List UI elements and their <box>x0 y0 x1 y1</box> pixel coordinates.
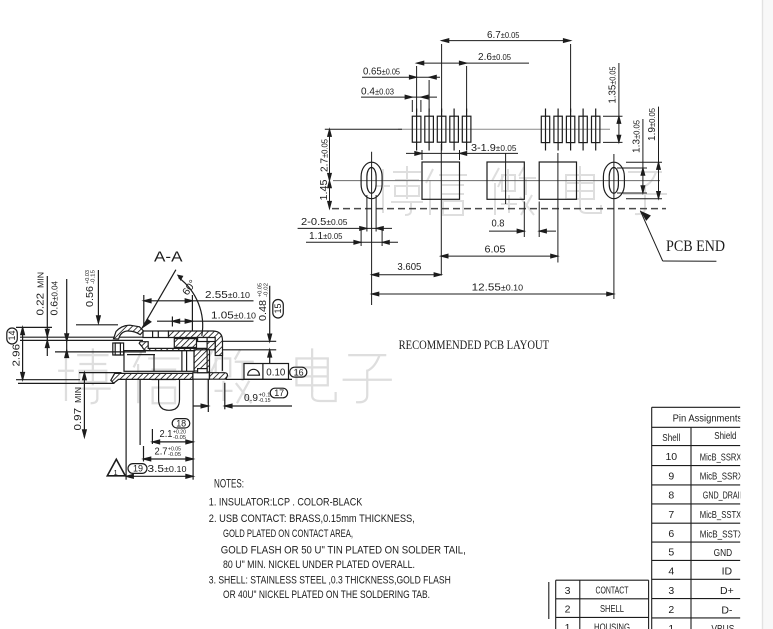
dim 0.56 +0.03/-0.15 <box>76 270 118 325</box>
svg-text:18: 18 <box>176 418 186 428</box>
dim 0.9 +0.1/-0.15 <box>193 392 292 408</box>
svg-text:SHELL: SHELL <box>600 603 624 615</box>
svg-text:1: 1 <box>114 468 118 477</box>
dimension 1.3±0.05 (oval slot) <box>617 119 647 193</box>
svg-text:MIN: MIN <box>74 387 83 403</box>
svg-text:D-: D- <box>721 604 733 616</box>
svg-text:Shield: Shield <box>714 430 736 442</box>
svg-text:14: 14 <box>7 331 17 341</box>
svg-text:-0.05: -0.05 <box>168 452 181 458</box>
rear shell wall strip <box>207 350 209 376</box>
svg-text:1.1±0.05: 1.1±0.05 <box>309 230 343 242</box>
svg-text:16: 16 <box>294 367 304 377</box>
dimension 3-1.9±0.05 (squares) <box>406 142 518 160</box>
square pad 1 <box>422 162 460 199</box>
dim 2.96 left <box>11 327 81 379</box>
contact lower line left <box>55 351 146 353</box>
shell top wall thin lines (left, to mating end) <box>20 336 143 338</box>
oval 17 <box>270 388 287 398</box>
svg-text:9: 9 <box>668 471 674 483</box>
svg-text:19: 19 <box>133 464 143 474</box>
white notch in band <box>198 338 208 342</box>
svg-text:MIN: MIN <box>37 272 46 288</box>
dimension 0.65±0.05 <box>362 65 440 112</box>
dim 1.05±0.10 <box>157 310 257 327</box>
svg-text:2.7±0.05: 2.7±0.05 <box>319 138 331 172</box>
mid cavity outline <box>124 351 194 372</box>
svg-text:0.4±0.03: 0.4±0.03 <box>361 85 395 97</box>
shell top band (hatched) with right wall <box>169 331 223 356</box>
svg-text:0.65±0.05: 0.65±0.05 <box>363 65 400 77</box>
svg-text:6.05: 6.05 <box>485 244 506 256</box>
svg-text:GOLD PLATED ON CONTACT AREA,: GOLD PLATED ON CONTACT AREA, <box>223 528 353 540</box>
dimension 1.45 (left vertical) <box>318 179 331 208</box>
dimension 2-0.5±0.05 <box>298 195 392 232</box>
parts table (bottom left) <box>549 580 649 629</box>
front insulator small box <box>113 343 124 355</box>
svg-text:ID: ID <box>722 566 733 578</box>
svg-text:0.8: 0.8 <box>492 218 505 230</box>
oval pad left <box>361 162 382 199</box>
svg-text:12.55±0.10: 12.55±0.10 <box>472 281 524 293</box>
svg-text:1.9±0.05: 1.9±0.05 <box>646 107 658 141</box>
svg-text:D+: D+ <box>720 585 734 597</box>
through-slot below (rounded bottom) <box>159 379 180 410</box>
svg-text:A-A: A-A <box>154 250 183 266</box>
dim 2.55±0.10 <box>144 289 254 332</box>
svg-text:2.1: 2.1 <box>160 428 173 440</box>
revision triangle <box>107 459 125 477</box>
svg-text:1.3±0.05: 1.3±0.05 <box>631 119 643 153</box>
svg-text:Shell: Shell <box>662 432 680 444</box>
dimension 12.55±0.10 <box>372 281 614 296</box>
svg-text:-0.05: -0.05 <box>173 435 186 441</box>
dim 2.1 +0.20/-0.05 <box>152 428 193 444</box>
svg-text:3.605: 3.605 <box>397 261 421 273</box>
shell bottom line left <box>18 382 115 384</box>
contact (hatched thin strip with bend) <box>139 342 206 351</box>
svg-text:OR 40U" NICKEL PLATED ON THE S: OR 40U" NICKEL PLATED ON THE SOLDERING T… <box>223 589 430 601</box>
dimension 6.7±0.05 <box>442 29 571 112</box>
dim 0.48 +0.05/-0.02 with leader to frame <box>223 283 276 364</box>
svg-text:1.45: 1.45 <box>318 179 330 200</box>
shell latch hook (hatched) <box>114 325 144 339</box>
dimension 2.6±0.05 <box>417 51 529 112</box>
svg-text:4: 4 <box>668 566 674 578</box>
dimension 1.35±0.05 (pad length) <box>603 63 623 142</box>
svg-text:1.35±0.05: 1.35±0.05 <box>607 66 619 103</box>
svg-text:7: 7 <box>668 509 674 521</box>
svg-text:3. SHELL: STAINLESS STEEL ,0.3: 3. SHELL: STAINLESS STEEL ,0.3 THICKNESS… <box>209 574 451 586</box>
svg-text:3: 3 <box>565 585 571 597</box>
svg-text:2: 2 <box>668 604 674 616</box>
rear insulator block (hatched) <box>194 350 207 371</box>
shell top band white cells <box>143 331 169 338</box>
oval centerlines <box>371 152 373 305</box>
watermark row 1 <box>376 166 423 215</box>
dim 3.5±0.10 with oval 19 <box>126 463 193 478</box>
svg-text:17: 17 <box>274 388 284 398</box>
60 degree angle: slant line, arc, label <box>142 270 203 336</box>
svg-text:10: 10 <box>665 451 677 463</box>
svg-text:Pin Assignments: Pin Assignments <box>673 413 743 425</box>
PCB edge dashed line <box>332 208 666 210</box>
svg-text:2-0.5±0.05: 2-0.5±0.05 <box>301 216 348 228</box>
foot surface line to right <box>226 378 292 380</box>
svg-text:2. USB CONTACT: BRASS,0.15mm T: 2. USB CONTACT: BRASS,0.15mm THICKNESS, <box>209 513 415 525</box>
pin assignment table (right, clipped at page edge) <box>652 407 746 629</box>
svg-text:2.96: 2.96 <box>11 344 23 367</box>
dim 0.6±0.04 <box>49 279 69 358</box>
svg-text:15: 15 <box>273 304 283 314</box>
dimension 1.1±0.05 <box>306 228 398 246</box>
PCB END leader <box>640 211 725 262</box>
dim 2.7 +0.05/-0.05 <box>144 445 194 461</box>
svg-text:MicB_SSRX+: MicB_SSRX+ <box>700 451 746 463</box>
svg-text:MicB_SSTX+: MicB_SSTX+ <box>700 509 746 521</box>
svg-text:5: 5 <box>668 547 674 559</box>
dimension 0.8 (square gap) <box>489 202 556 238</box>
svg-text:MicB_SSTX-: MicB_SSTX- <box>700 528 746 540</box>
svg-text:-0.02: -0.02 <box>263 283 269 297</box>
dimension 1.9±0.05 (oval) <box>626 107 662 199</box>
svg-text:0.97: 0.97 <box>72 408 84 431</box>
svg-text:GND: GND <box>714 547 733 559</box>
svg-text:6.7±0.05: 6.7±0.05 <box>487 29 520 41</box>
svg-text:GOLD FLASH OR 50 U" TIN PLATED: GOLD FLASH OR 50 U" TIN PLATED ON SOLDER… <box>221 545 466 557</box>
svg-text:0.56: 0.56 <box>84 286 96 307</box>
svg-text:1: 1 <box>668 623 674 629</box>
oval 15 <box>273 300 284 319</box>
svg-text:0.22: 0.22 <box>35 293 47 316</box>
svg-text:NOTES:: NOTES: <box>214 479 244 491</box>
legs / extension lines below body <box>125 379 127 479</box>
centerline pad row <box>398 128 610 130</box>
svg-text:2.6±0.05: 2.6±0.05 <box>478 51 512 63</box>
dimension 3.605 <box>372 261 442 277</box>
svg-text:2: 2 <box>565 604 571 616</box>
white box between plate and foot <box>193 373 210 380</box>
svg-text:2.55±0.10: 2.55±0.10 <box>205 289 251 301</box>
svg-text:3: 3 <box>668 585 674 597</box>
svg-text:HOUSING: HOUSING <box>594 622 630 629</box>
flatness feature control frame <box>244 364 289 380</box>
svg-text:0.10: 0.10 <box>266 366 285 378</box>
svg-text:PCB END: PCB END <box>666 238 725 255</box>
dimension 6.05 <box>441 244 558 258</box>
pad group right (5 solder pads) <box>541 109 600 151</box>
svg-text:MicB_SSRX-: MicB_SSRX- <box>700 471 746 483</box>
svg-text:CONTACT: CONTACT <box>596 585 629 597</box>
svg-text:-0.15: -0.15 <box>91 270 97 284</box>
svg-text:8: 8 <box>668 490 674 502</box>
bottom plate (hatched) <box>111 373 193 383</box>
svg-text:1. INSULATOR:LCP . COLOR-BLACK: 1. INSULATOR:LCP . COLOR-BLACK <box>209 496 363 508</box>
svg-text:80 U" MIN. NICKEL UNDER PLATED: 80 U" MIN. NICKEL UNDER PLATED OVERALL. <box>223 559 415 571</box>
svg-text:3-1.9±0.05: 3-1.9±0.05 <box>471 142 517 154</box>
svg-text:VBUS: VBUS <box>711 623 734 629</box>
svg-text:0.48: 0.48 <box>257 300 269 321</box>
svg-text:-0.15: -0.15 <box>259 398 271 404</box>
square pad 3 <box>539 162 576 199</box>
svg-text:2.7: 2.7 <box>155 445 168 457</box>
square centerline extensions <box>440 144 442 276</box>
dimension 2.7±0.05 (left vertical) <box>319 129 403 180</box>
svg-text:0.6±0.04: 0.6±0.04 <box>49 280 61 315</box>
svg-text:GND_DRAIN: GND_DRAIN <box>703 490 745 502</box>
svg-text:1.05±0.10: 1.05±0.10 <box>211 310 257 322</box>
watermark row 2 <box>58 348 111 403</box>
pad group left (5 solder pads) <box>412 109 471 151</box>
oval pad right <box>603 162 624 199</box>
inner band (hatched) <box>174 339 196 348</box>
oval 16 <box>290 367 307 377</box>
right page margin <box>763 0 773 629</box>
dim 0.97 MIN <box>72 373 122 437</box>
svg-text:0.9: 0.9 <box>244 392 258 404</box>
oval 14 <box>7 328 17 344</box>
svg-text:RECOMMENDED PCB LAYOUT: RECOMMENDED PCB LAYOUT <box>399 338 550 352</box>
centerline oval row <box>333 180 660 182</box>
svg-text:3.5±0.10: 3.5±0.10 <box>148 463 188 475</box>
solder foot (hatched) <box>210 373 228 380</box>
dim 0.22 MIN <box>35 272 50 356</box>
dimension 0.4±0.03 <box>361 85 437 112</box>
svg-text:6: 6 <box>668 528 674 540</box>
square pad 2 <box>487 162 524 199</box>
oval 18 <box>172 418 190 428</box>
svg-text:1: 1 <box>565 622 571 629</box>
